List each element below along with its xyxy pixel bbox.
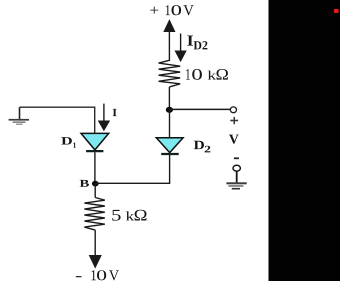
arrow up to +10V supply: [164, 20, 175, 61]
wire resistor to node: [168, 87, 170, 110]
red indicator dot: [334, 9, 339, 13]
resistor R 10 kOhm: [159, 60, 181, 87]
arrow down current I: [99, 104, 110, 131]
label B: [80, 180, 89, 187]
wire D1 to node B: [94, 152, 96, 183]
wire node to D2: [169, 110, 171, 138]
supply label -10V: [76, 270, 119, 280]
diode D1: [81, 133, 109, 151]
label ID2: [187, 35, 193, 45]
supply label +10V: [150, 5, 194, 15]
label D1: [61, 137, 72, 144]
arrow down ID2: [175, 34, 186, 62]
resistor R 5 kOhm: [84, 198, 104, 231]
wire terminal to right ground: [236, 171, 238, 182]
black sidebar panel: [269, 0, 340, 281]
wire node B to D2 branch: [95, 155, 169, 183]
arrow down to -10V supply: [90, 256, 102, 268]
wire node to output terminal: [169, 108, 230, 110]
minus sign label: [234, 157, 239, 159]
value label 5 kOhm: [112, 210, 146, 221]
wire node B to resistor 5k: [94, 183, 96, 197]
plus sign label: [230, 120, 238, 122]
label I: [113, 109, 117, 116]
ground left: [9, 107, 29, 125]
junction node dot: [166, 107, 173, 113]
wire left ground to D1 branch: [20, 107, 95, 133]
value label 10 kOhm: [186, 69, 228, 80]
output terminal circle: [230, 107, 236, 113]
diode D2: [156, 138, 183, 154]
ground right: [226, 182, 246, 189]
wire resistor to -10V arrow: [94, 230, 96, 256]
node B dot: [92, 181, 99, 187]
lower terminal circle: [233, 165, 240, 171]
label D2: [194, 141, 204, 149]
voltage label V: [229, 135, 239, 144]
